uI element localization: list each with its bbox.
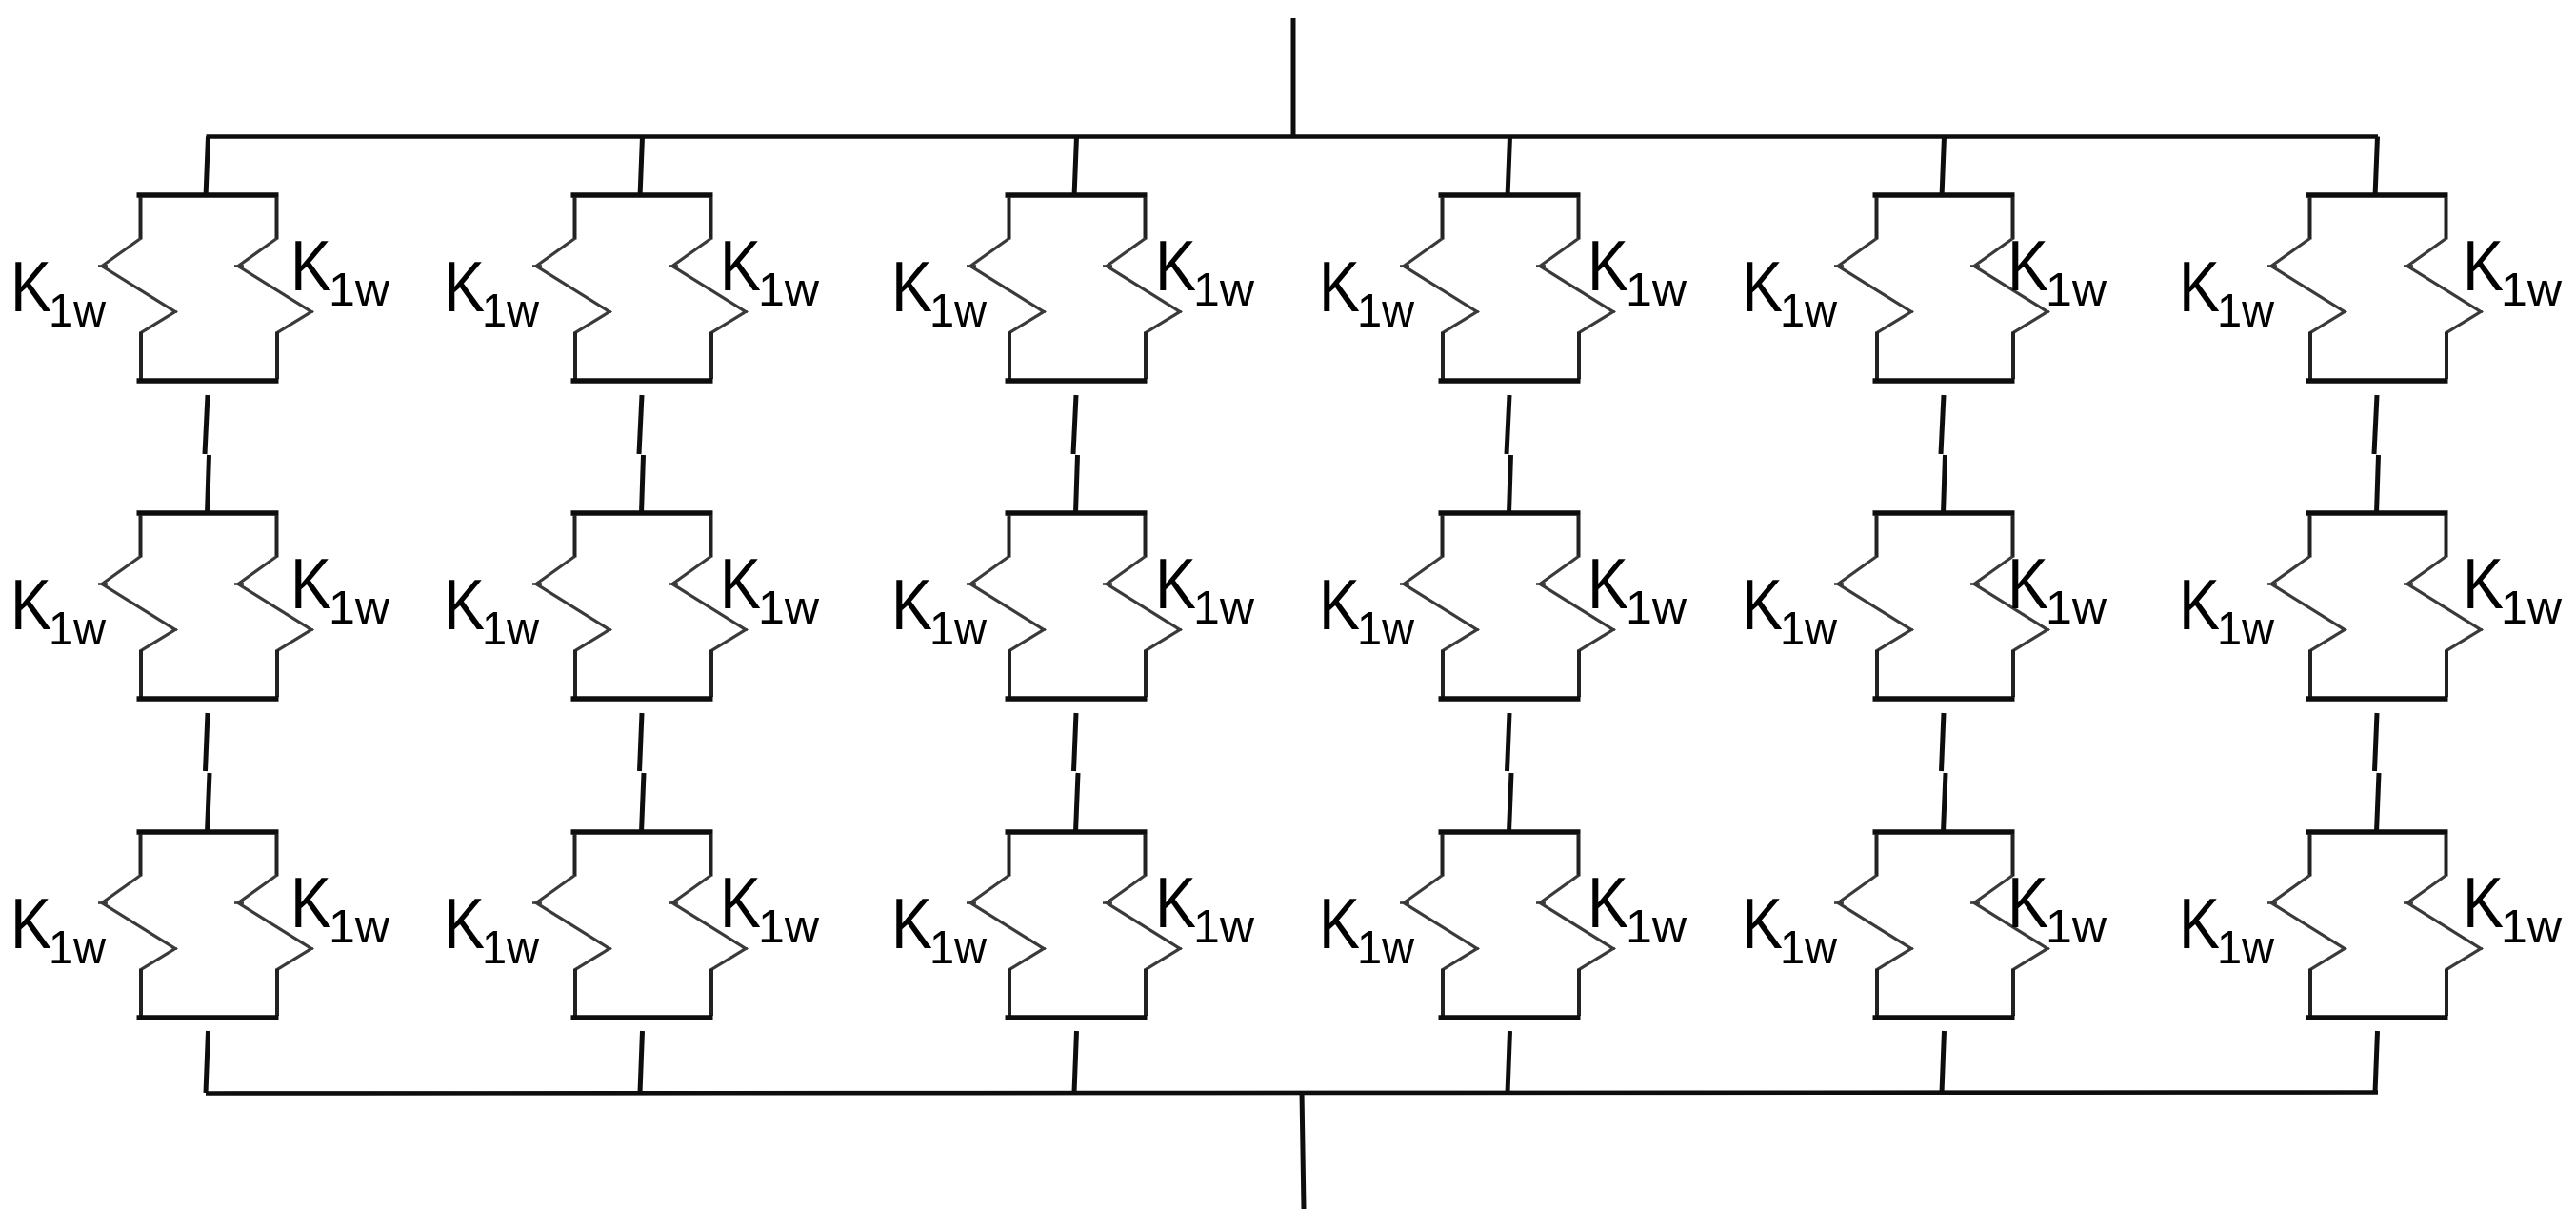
resistor pair unit row 1 col 3 : bottom bar — [1006, 378, 1148, 384]
svg-text:K: K — [1319, 247, 1360, 327]
svg-text:1w: 1w — [929, 604, 988, 655]
resistor K1w (left) row 2 col 1 — [139, 515, 143, 558]
resistor pair unit row 1 col 6 : bottom bar — [2306, 378, 2448, 384]
svg-text:K: K — [2179, 883, 2220, 963]
resistor pair unit row 2 col 4 : bottom bar — [1439, 696, 1581, 702]
resistor K1w (left) row 3 col 5 — [1875, 834, 1879, 877]
svg-text:1w: 1w — [1193, 901, 1255, 953]
wire: unit row 2 to row 3, col 3 (upper segment) — [1074, 713, 1077, 771]
svg-text:K: K — [1742, 883, 1783, 963]
wire: top bus to unit row 1 col 5 — [1942, 137, 1945, 198]
svg-text:1w: 1w — [2217, 922, 2275, 974]
svg-text:1w: 1w — [49, 286, 107, 337]
svg-text:1w: 1w — [1780, 922, 1838, 974]
resistor K1w (left) row 2 col 3 — [1008, 515, 1011, 558]
svg-text:K: K — [444, 564, 485, 644]
wire: unit row 1 to row 2, col 6 (lower segment) — [2377, 455, 2379, 513]
resistor pair unit row 1 col 3 : top bar — [1006, 192, 1148, 198]
svg-text:K: K — [2179, 564, 2220, 644]
svg-text:1w: 1w — [1193, 583, 1255, 634]
resistor pair unit row 2 col 5 : top bar — [1873, 510, 2015, 516]
svg-text:K: K — [290, 544, 331, 624]
svg-text:1w: 1w — [2046, 583, 2107, 634]
svg-text:K: K — [1155, 226, 1196, 306]
wire: top bus to unit row 1 col 4 — [1508, 137, 1510, 198]
svg-text:K: K — [720, 226, 761, 306]
resistor K1w (left) row 3 col 2 — [573, 834, 577, 877]
svg-text:K: K — [10, 883, 51, 963]
wire: unit row 1 to row 2, col 3 (lower segment) — [1076, 455, 1078, 513]
resistor K1w (left) row 1 col 2 — [573, 197, 577, 240]
resistor pair unit row 3 col 4 : bottom bar — [1439, 1015, 1581, 1020]
wire: top bus to unit row 1 col 3 — [1074, 137, 1077, 198]
resistor K1w (left) row 2 col 2 — [573, 515, 577, 558]
svg-text:K: K — [2007, 544, 2048, 624]
resistor pair unit row 1 col 4 : bottom bar — [1439, 378, 1581, 384]
wire: unit row 1 to row 2, col 3 (upper segment) — [1073, 395, 1076, 454]
resistor pair unit row 3 col 5 : bottom bar — [1873, 1015, 2015, 1020]
wire: unit row 3 col 6 to bottom bus — [2375, 1031, 2378, 1093]
svg-text:1w: 1w — [1626, 265, 1687, 316]
resistor K1w (left) row 1 col 5 — [1875, 197, 1879, 240]
resistor K1w (right) row 1 col 4 — [1577, 197, 1581, 240]
wire: unit row 1 to row 2, col 2 (upper segment) — [639, 395, 642, 454]
svg-text:K: K — [10, 564, 51, 644]
svg-text:K: K — [1742, 564, 1783, 644]
resistor pair unit row 3 col 1 : bottom bar — [137, 1015, 279, 1020]
svg-text:1w: 1w — [929, 286, 988, 337]
resistor K1w (left) row 1 col 4 — [1441, 197, 1445, 240]
resistor pair unit row 1 col 5 : bottom bar — [1873, 378, 2015, 384]
resistor K1w (left) row 2 col 4 — [1441, 515, 1445, 558]
svg-text:K: K — [2179, 247, 2220, 327]
resistor pair unit row 2 col 6 : bottom bar — [2306, 696, 2448, 702]
resistor pair unit row 3 col 3 : bottom bar — [1006, 1015, 1148, 1020]
wire: unit row 2 to row 3, col 5 (upper segment) — [1942, 713, 1945, 771]
resistor K1w (left) row 3 col 6 — [2308, 834, 2312, 877]
wire: top bus to unit row 1 col 6 — [2375, 137, 2378, 198]
svg-text:1w: 1w — [49, 922, 107, 974]
wire: unit row 2 to row 3, col 4 (lower segment) — [1509, 773, 1512, 832]
svg-text:1w: 1w — [758, 901, 820, 953]
resistor K1w (left) row 3 col 3 — [1008, 834, 1011, 877]
svg-text:1w: 1w — [482, 286, 540, 337]
svg-text:1w: 1w — [1357, 286, 1415, 337]
resistor K1w (right) row 3 col 4 — [1577, 834, 1581, 877]
resistor pair unit row 3 col 2 : top bar — [571, 829, 713, 835]
svg-text:1w: 1w — [2217, 286, 2275, 337]
resistor K1w (right) row 2 col 6 — [2445, 515, 2448, 558]
wire: unit row 1 to row 2, col 2 (lower segment) — [642, 455, 644, 513]
resistor K1w (left) row 2 col 5 — [1875, 515, 1879, 558]
svg-text:K: K — [2007, 226, 2048, 306]
svg-text:K: K — [290, 862, 331, 942]
svg-text:K: K — [1319, 883, 1360, 963]
svg-text:K: K — [720, 544, 761, 624]
svg-text:1w: 1w — [2217, 604, 2275, 655]
resistor pair unit row 3 col 6 : top bar — [2306, 829, 2448, 835]
resistor pair unit row 1 col 1 : top bar — [137, 192, 279, 198]
resistor K1w (right) row 2 col 5 — [2011, 515, 2015, 558]
wire: unit row 1 to row 2, col 4 (upper segment) — [1507, 395, 1509, 454]
svg-text:K: K — [1155, 544, 1196, 624]
resistor K1w (right) row 2 col 1 — [275, 515, 279, 558]
svg-text:1w: 1w — [2046, 901, 2107, 953]
resistor K1w (right) row 1 col 6 — [2445, 197, 2448, 240]
svg-text:K: K — [1588, 862, 1628, 942]
resistor pair unit row 1 col 4 : top bar — [1439, 192, 1581, 198]
resistor pair unit row 2 col 3 : top bar — [1006, 510, 1148, 516]
wire: unit row 2 to row 3, col 2 (lower segment) — [642, 773, 645, 832]
wire: unit row 2 to row 3, col 1 (upper segment) — [206, 713, 209, 771]
svg-text:K: K — [444, 883, 485, 963]
svg-text:K: K — [2463, 226, 2504, 306]
svg-text:K: K — [10, 247, 51, 327]
wire: unit row 2 to row 3, col 1 (lower segment) — [208, 773, 210, 832]
svg-text:K: K — [290, 226, 331, 306]
resistor K1w (right) row 1 col 5 — [2011, 197, 2015, 240]
svg-text:1w: 1w — [329, 583, 390, 634]
resistor pair unit row 1 col 1 : bottom bar — [137, 378, 279, 384]
resistor pair unit row 3 col 4 : top bar — [1439, 829, 1581, 835]
resistor K1w (right) row 2 col 3 — [1144, 515, 1148, 558]
resistor pair unit row 2 col 2 : bottom bar — [571, 696, 713, 702]
svg-text:K: K — [444, 247, 485, 327]
resistor K1w (right) row 3 col 6 — [2445, 834, 2448, 877]
wire: unit row 2 to row 3, col 5 (lower segment) — [1944, 773, 1947, 832]
top lead wire — [1291, 18, 1296, 136]
resistor pair unit row 3 col 1 : top bar — [137, 829, 279, 835]
resistor K1w (left) row 3 col 1 — [139, 834, 143, 877]
resistor pair unit row 1 col 2 : top bar — [571, 192, 713, 198]
resistor pair unit row 2 col 3 : bottom bar — [1006, 696, 1148, 702]
resistor pair unit row 1 col 2 : bottom bar — [571, 378, 713, 384]
wire: unit row 3 col 3 to bottom bus — [1074, 1031, 1077, 1093]
svg-text:1w: 1w — [329, 265, 390, 316]
svg-text:K: K — [891, 564, 932, 644]
wire: unit row 1 to row 2, col 1 (upper segment) — [205, 395, 208, 454]
svg-text:1w: 1w — [1780, 604, 1838, 655]
svg-text:K: K — [891, 883, 932, 963]
resistor pair unit row 3 col 2 : bottom bar — [571, 1015, 713, 1020]
svg-text:1w: 1w — [1626, 583, 1687, 634]
svg-text:K: K — [1155, 862, 1196, 942]
svg-text:1w: 1w — [1357, 604, 1415, 655]
svg-text:1w: 1w — [2501, 901, 2563, 953]
svg-text:1w: 1w — [2046, 265, 2107, 316]
svg-text:K: K — [2463, 544, 2504, 624]
resistor pair unit row 2 col 5 : bottom bar — [1873, 696, 2015, 702]
wire: unit row 1 to row 2, col 1 (lower segment) — [208, 455, 210, 513]
wire: unit row 1 to row 2, col 6 (upper segment) — [2374, 395, 2377, 454]
svg-text:K: K — [720, 862, 761, 942]
svg-text:1w: 1w — [1357, 922, 1415, 974]
svg-text:1w: 1w — [1780, 286, 1838, 337]
wire: unit row 2 to row 3, col 6 (upper segment) — [2375, 713, 2378, 771]
resistor pair unit row 3 col 6 : bottom bar — [2306, 1015, 2448, 1020]
resistor K1w (right) row 2 col 2 — [709, 515, 713, 558]
resistor pair unit row 2 col 1 : bottom bar — [137, 696, 279, 702]
resistor K1w (right) row 1 col 1 — [275, 197, 279, 240]
svg-text:1w: 1w — [929, 922, 988, 974]
svg-text:1w: 1w — [758, 583, 820, 634]
wire: top bus to unit row 1 col 2 — [640, 137, 643, 198]
resistor pair unit row 2 col 4 : top bar — [1439, 510, 1581, 516]
top bus wire (node A) — [207, 134, 2379, 139]
wire: unit row 3 col 1 to bottom bus — [206, 1031, 209, 1093]
svg-text:K: K — [2463, 862, 2504, 942]
svg-text:K: K — [891, 247, 932, 327]
resistor K1w (right) row 2 col 4 — [1577, 515, 1581, 558]
resistor K1w (right) row 3 col 5 — [2011, 834, 2015, 877]
bottom lead wire — [1302, 1092, 1304, 1209]
wire: unit row 2 to row 3, col 4 (upper segment) — [1508, 713, 1510, 771]
resistor pair unit row 1 col 6 : top bar — [2306, 192, 2448, 198]
wire: unit row 2 to row 3, col 2 (upper segment) — [640, 713, 643, 771]
resistor K1w (left) row 1 col 3 — [1008, 197, 1011, 240]
wire: top bus to unit row 1 col 1 — [206, 137, 209, 198]
svg-text:1w: 1w — [329, 901, 390, 953]
resistor K1w (right) row 1 col 3 — [1144, 197, 1148, 240]
svg-text:K: K — [1319, 564, 1360, 644]
svg-text:1w: 1w — [1193, 265, 1255, 316]
resistor K1w (right) row 3 col 2 — [709, 834, 713, 877]
wire: unit row 3 col 2 to bottom bus — [640, 1031, 643, 1093]
wire: unit row 2 to row 3, col 6 (lower segment) — [2377, 773, 2380, 832]
svg-text:1w: 1w — [49, 604, 107, 655]
resistor pair unit row 3 col 3 : top bar — [1006, 829, 1148, 835]
svg-text:K: K — [1588, 226, 1628, 306]
resistor K1w (left) row 1 col 6 — [2308, 197, 2312, 240]
svg-text:1w: 1w — [2501, 265, 2563, 316]
wire: unit row 2 to row 3, col 3 (lower segment) — [1076, 773, 1079, 832]
svg-text:1w: 1w — [2501, 583, 2563, 634]
svg-text:1w: 1w — [758, 265, 820, 316]
bottom bus wire (node B) — [206, 1093, 2378, 1094]
svg-text:1w: 1w — [482, 922, 540, 974]
wire: unit row 3 col 4 to bottom bus — [1508, 1031, 1510, 1093]
resistor K1w (right) row 3 col 3 — [1144, 834, 1148, 877]
resistor K1w (left) row 2 col 6 — [2308, 515, 2312, 558]
resistor K1w (left) row 3 col 4 — [1441, 834, 1445, 877]
wire: unit row 1 to row 2, col 4 (lower segment) — [1509, 455, 1511, 513]
svg-text:1w: 1w — [1626, 901, 1687, 953]
svg-text:K: K — [1742, 247, 1783, 327]
resistor pair unit row 1 col 5 : top bar — [1873, 192, 2015, 198]
svg-text:K: K — [2007, 862, 2048, 942]
wire: unit row 3 col 5 to bottom bus — [1942, 1031, 1945, 1093]
resistor K1w (right) row 3 col 1 — [275, 834, 279, 877]
wire: unit row 1 to row 2, col 5 (lower segment) — [1944, 455, 1946, 513]
svg-text:K: K — [1588, 544, 1628, 624]
resistor pair unit row 3 col 5 : top bar — [1873, 829, 2015, 835]
svg-text:1w: 1w — [482, 604, 540, 655]
resistor pair unit row 2 col 2 : top bar — [571, 510, 713, 516]
resistor pair unit row 2 col 1 : top bar — [137, 510, 279, 516]
resistor pair unit row 2 col 6 : top bar — [2306, 510, 2448, 516]
resistor K1w (left) row 1 col 1 — [139, 197, 143, 240]
wire: unit row 1 to row 2, col 5 (upper segment) — [1941, 395, 1944, 454]
resistor K1w (right) row 1 col 2 — [709, 197, 713, 240]
